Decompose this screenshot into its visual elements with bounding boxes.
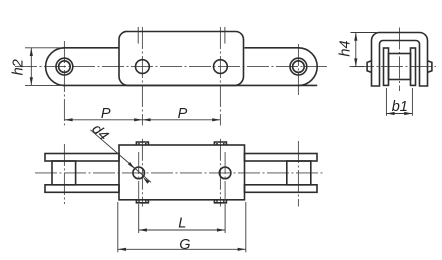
svg-text:G: G <box>179 237 190 253</box>
svg-text:P: P <box>178 106 188 122</box>
svg-text:P: P <box>101 106 111 122</box>
svg-text:h2: h2 <box>11 59 27 75</box>
svg-text:L: L <box>178 215 186 231</box>
svg-text:b1: b1 <box>392 99 408 115</box>
svg-text:h4: h4 <box>338 40 354 56</box>
